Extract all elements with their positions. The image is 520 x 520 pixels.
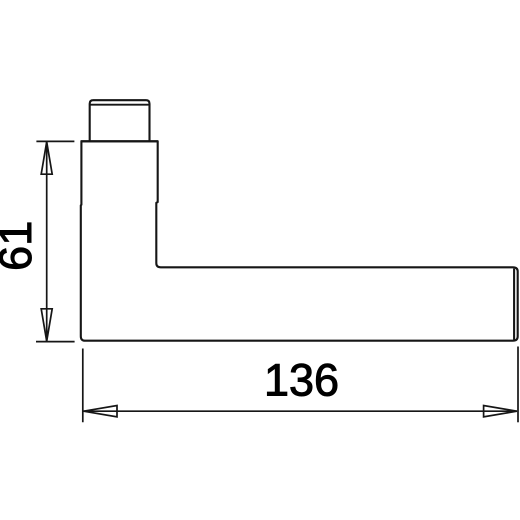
dimension 136: left extension line <box>82 349 84 423</box>
dimension 136: right extension line <box>517 347 519 423</box>
dimension 136: left arrowhead <box>84 406 117 417</box>
svg-text:61: 61 <box>0 221 41 271</box>
neck (spindle boss) <box>90 100 150 141</box>
handle body and lever silhouette <box>81 141 518 340</box>
dimension 61: bottom arrowhead <box>41 309 52 341</box>
body top edge overhang <box>81 140 159 142</box>
svg-text:136: 136 <box>264 355 339 406</box>
neck top chamfer line <box>90 104 149 106</box>
dimension 61: bottom extension line <box>36 341 75 343</box>
dimension 61: top extension line <box>36 140 74 142</box>
lever end cap inner line <box>513 269 515 340</box>
dimension 136: right arrowhead <box>484 406 517 417</box>
dimension 61: dimension line <box>46 142 48 341</box>
dimension 61: top arrowhead <box>41 142 52 174</box>
dimension 136: dimension line <box>84 410 517 412</box>
